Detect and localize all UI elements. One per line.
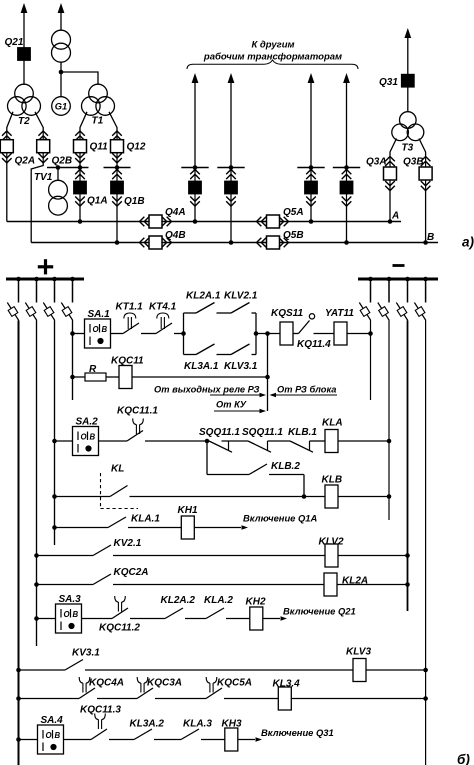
node KQC11 row on plus tap 4: [70, 375, 75, 380]
svg-text:Q31: Q31: [379, 77, 398, 88]
wire T2 left lead to Q2A: [7, 112, 13, 131]
svg-text:SQQ11.1: SQQ11.1: [242, 427, 283, 438]
feeder to other working transformer at x=195: [192, 73, 199, 83]
node YAT11 row on minus tap 1: [368, 331, 373, 336]
wire T1 left lead to Q11: [80, 112, 87, 131]
bus tap bar for Q12: [104, 167, 131, 169]
reserve line B: [31, 242, 438, 244]
minus bus tap #2 with fuse-switch: [387, 277, 392, 282]
wire R to KQC11: [106, 376, 119, 378]
wire KV3.1 to KLV3: [85, 669, 353, 671]
sectionalizing switch Q4A: [140, 217, 145, 227]
wire KT4.1 to parallel block: [174, 333, 184, 335]
node KLB.2 joins: [302, 494, 307, 499]
generator breaker Q1A: [79, 168, 81, 207]
svg-text:Q4B: Q4B: [165, 230, 186, 241]
svg-text:KLV3.1: KLV3.1: [224, 361, 258, 372]
wire Q12 down to bus tap: [116, 163, 118, 168]
wire SA.4 to KQC11.3: [64, 739, 92, 741]
wire T3 right lead: [419, 139, 426, 157]
feeder to other working transformer at x=346.5: [343, 73, 350, 83]
svg-text:Q12: Q12: [127, 142, 146, 153]
svg-text:б): б): [457, 752, 470, 765]
wire to KV3.1: [19, 669, 66, 671]
svg-text:KL3A.2: KL3A.2: [130, 719, 165, 730]
generator step-up transformer above G1: [60, 11, 62, 30]
wire KLV2 to minus tap 3: [338, 555, 408, 557]
plus bus tap #3 with fuse-switch: [52, 277, 57, 282]
node KL3.4 row on minus tap 4: [423, 696, 428, 701]
plus bus tap #2 with fuse-switch: [34, 277, 39, 282]
wire Q11 down to generator bus tap: [79, 163, 81, 168]
wire Q21 to T2: [23, 60, 25, 84]
svg-text:SQQ11.1: SQQ11.1: [199, 427, 240, 438]
generator breaker Q1B: [116, 168, 118, 207]
wire to SA.1: [73, 333, 85, 335]
svg-text:O: O: [64, 610, 70, 619]
svg-text:KV3.1: KV3.1: [72, 648, 100, 659]
wire KQC4A to KQC3A: [97, 698, 137, 700]
node KLV3 row on minus tap 4: [423, 668, 428, 673]
svg-text:Q2A: Q2A: [15, 156, 36, 167]
wire to KV2.1: [37, 555, 94, 557]
wire KL3A.2 to KLA.3: [154, 739, 181, 741]
wire KLB to minus tap 2: [338, 496, 389, 498]
wire KH1 to output arrow: [195, 527, 242, 529]
node B: [423, 240, 428, 245]
wire T1 right lead to Q12: [109, 112, 117, 131]
svg-text:Q2B: Q2B: [52, 156, 73, 167]
svg-text:KLA.3: KLA.3: [183, 719, 212, 730]
node on trip branch: [265, 375, 270, 380]
wire T2 right lead to Q2B: [35, 112, 43, 131]
svg-text:KLV2.1: KLV2.1: [224, 291, 258, 302]
withdrawable breaker Q12: [116, 131, 118, 163]
svg-text:KLA.2: KLA.2: [204, 595, 233, 606]
node G junction: [59, 70, 64, 75]
svg-text:SA.3: SA.3: [59, 594, 82, 605]
svg-text:KQ11.4: KQ11.4: [297, 339, 331, 350]
wire to KLA.1: [55, 527, 109, 529]
wire Q1B to line B: [116, 206, 118, 243]
parallel block right rail: [255, 313, 257, 355]
sectionalizing switch Q5A: [257, 217, 262, 227]
plus supply bus: [38, 265, 53, 268]
svg-text:B: B: [102, 325, 108, 334]
minus supply bus: [393, 264, 405, 267]
svg-text:Q3B: Q3B: [403, 157, 424, 168]
wire KL to KLB coil: [130, 496, 326, 498]
svg-text:KQC5A: KQC5A: [217, 678, 252, 689]
wire KLB.2 to KLB row: [269, 474, 304, 476]
wire KL2A to minus tap 3: [337, 584, 408, 586]
wire SA.2 to KQC11.1: [99, 440, 128, 442]
svg-text:Q5B: Q5B: [283, 230, 304, 241]
wire SA.1 to KT1.1: [111, 333, 124, 335]
svg-text:T3: T3: [402, 143, 414, 154]
node A: [388, 219, 393, 224]
wire Q2A down to line A: [6, 163, 8, 222]
svg-text:KH1: KH1: [178, 505, 198, 516]
node TV1 tap: [56, 165, 61, 170]
wire Q21 feeder to grid with arrow: [21, 3, 28, 13]
svg-text:KLV3: KLV3: [346, 647, 371, 658]
wire to SA.4: [19, 739, 38, 741]
node KLB.2 branch: [205, 439, 210, 444]
svg-text:Q1B: Q1B: [124, 196, 145, 207]
wire transformer to node G: [60, 62, 62, 96]
wire KH3 to output arrow: [238, 739, 255, 741]
svg-text:SA.4: SA.4: [41, 715, 64, 726]
node Q1A column: [78, 165, 83, 170]
svg-text:B: B: [55, 731, 61, 740]
node KLB row on minus tap 2: [387, 494, 392, 499]
svg-text:B: B: [427, 232, 434, 243]
wire to SA.2: [55, 440, 73, 442]
svg-text:KL: KL: [111, 464, 124, 475]
node KL row on plus tap 3: [52, 494, 57, 499]
minus bus tap #1 with fuse-switch: [368, 277, 373, 282]
wire Q31 to T3: [407, 87, 409, 112]
wire Q3B to line B: [425, 191, 427, 243]
svg-text:Включение Q31: Включение Q31: [261, 727, 334, 738]
svg-text:KT4.1: KT4.1: [149, 302, 177, 313]
withdrawable breaker Q2B: [42, 131, 44, 163]
node KQC row on plus tap 1: [16, 696, 21, 701]
generator G1: [52, 97, 71, 116]
svg-text:KQC4A: KQC4A: [89, 678, 124, 689]
svg-text:Q11: Q11: [90, 142, 109, 153]
wire KT1.1 to KT4.1: [141, 333, 156, 335]
svg-text:KQC11.1: KQC11.1: [117, 406, 158, 417]
svg-text:KQS11: KQS11: [271, 308, 303, 319]
wire Q2B jog down to line B: [31, 163, 43, 243]
wire KQS11 to KQ11.4: [293, 333, 299, 335]
svg-text:От КУ: От КУ: [216, 400, 247, 410]
svg-text:Включение Q1A: Включение Q1A: [243, 513, 317, 524]
wire KH2 to output arrow: [263, 618, 280, 620]
wire KQC11.3 to KL3A.2: [109, 739, 134, 741]
transformer T1: [89, 84, 108, 103]
sectionalizing switch Q4B: [140, 238, 145, 248]
node KLA row on minus tap 2: [387, 439, 392, 444]
svg-text:O: O: [81, 433, 87, 442]
feeder to other working transformer at x=311: [308, 73, 315, 83]
wire to KQC2A: [37, 584, 94, 586]
svg-text:KLB: KLB: [322, 475, 343, 486]
wire KQC2A to KL2A: [113, 584, 324, 586]
wire KQC3A to KQC5A: [155, 698, 206, 700]
svg-text:T2: T2: [18, 116, 30, 127]
wire T3 left lead: [390, 139, 397, 157]
svg-text:KQC2A: KQC2A: [114, 567, 149, 578]
svg-text:От РЗ блока: От РЗ блока: [277, 385, 336, 395]
node Q1A on line A: [78, 219, 83, 224]
svg-text:К другим: К другим: [251, 40, 294, 51]
node KL2A row on minus tap 3: [405, 582, 410, 587]
wire KLV3 to minus tap 4: [366, 669, 426, 671]
wire KQC11.1 to branch node: [145, 440, 207, 442]
wire KLB.2 branch horizontal: [207, 474, 249, 476]
svg-text:G1: G1: [55, 101, 67, 111]
svg-text:O: O: [93, 325, 99, 334]
svg-text:KQC11.3: KQC11.3: [80, 705, 121, 716]
node trip signal branch: [265, 331, 270, 336]
parallel block left rail: [183, 313, 185, 355]
svg-text:KLB.1: KLB.1: [288, 427, 317, 438]
svg-text:KLA: KLA: [322, 418, 343, 429]
wire KLA.3 to KH3: [201, 739, 225, 741]
svg-text:Q21: Q21: [5, 37, 24, 48]
node SA.2 row on plus tap 3: [52, 439, 57, 444]
wire KLA.1 to KH1: [128, 527, 181, 529]
svg-text:Q5A: Q5A: [283, 207, 304, 218]
plus bus tap #1 with fuse-switch: [16, 277, 21, 282]
brace over feeder arrows: [187, 60, 358, 69]
svg-text:KL3A.1: KL3A.1: [184, 361, 219, 372]
svg-text:От выходных реле РЗ: От выходных реле РЗ: [154, 385, 260, 395]
generator bus tap bar for Q11 / TV1: [47, 167, 89, 169]
transformer T2: [15, 84, 34, 103]
wire Q3A to line A: [389, 191, 391, 222]
withdrawable breaker Q2A: [6, 131, 8, 163]
svg-text:T1: T1: [92, 116, 104, 127]
svg-text:KH2: KH2: [246, 597, 266, 608]
svg-text:O: O: [46, 731, 52, 740]
svg-text:Включение Q21: Включение Q21: [283, 606, 356, 617]
svg-text:KL2A.2: KL2A.2: [161, 595, 196, 606]
wire trip branch vertical: [267, 334, 269, 412]
svg-text:Q1A: Q1A: [87, 196, 108, 207]
plus bus tap #4 with fuse-switch: [70, 277, 75, 282]
wire YAT11 to minus tap 1: [347, 333, 371, 335]
svg-text:TV1: TV1: [34, 172, 53, 183]
wire KLA.2 to KH2: [226, 618, 250, 620]
withdrawable breaker Q11: [79, 131, 81, 163]
wire to KQC4A: [19, 698, 80, 700]
reserve line A: [7, 221, 401, 223]
wire KLB.2 branch down: [206, 441, 208, 475]
svg-text:Q4A: Q4A: [165, 207, 186, 218]
svg-text:KV2.1: KV2.1: [114, 538, 142, 549]
svg-text:KLB.2: KLB.2: [271, 461, 300, 472]
wire KQC11 to trip node: [132, 376, 268, 378]
wire to KL contact: [55, 496, 111, 498]
wire KQC5A to KL3.4: [224, 698, 278, 700]
wire KL3.4 to minus tap 4: [292, 698, 426, 700]
node KLV2 row on minus tap 3: [405, 553, 410, 558]
node KLA.1 row on plus tap 3: [52, 525, 57, 530]
svg-text:KL2A.1: KL2A.1: [186, 291, 221, 302]
svg-text:KT1.1: KT1.1: [116, 302, 144, 313]
svg-text:а): а): [462, 235, 474, 250]
svg-text:A: A: [391, 211, 399, 222]
svg-text:Q3A: Q3A: [366, 157, 387, 168]
sectionalizing switch Q5B: [257, 238, 262, 248]
feeder to other working transformer at x=231: [228, 73, 235, 83]
wire to SA.3: [37, 618, 56, 620]
node KQC2A row on plus tap 2: [34, 582, 39, 587]
svg-text:B: B: [73, 610, 79, 619]
svg-text:B: B: [90, 433, 96, 442]
node SA.1 row on plus tap 4: [70, 331, 75, 336]
minus bus tap #3 with fuse-switch: [405, 277, 410, 282]
wire KQC11.2 to KL2A.2: [130, 618, 165, 620]
node KV2.1 row on plus tap 2: [34, 553, 39, 558]
wire KL2A.2 to KLA.2: [185, 618, 206, 620]
wire node G to T1: [61, 72, 98, 84]
node SA.4 row on plus tap 1: [16, 737, 21, 742]
wire Q1A to line A: [79, 206, 81, 222]
wire KV2.1 to KLV2: [113, 555, 325, 557]
svg-text:KQC11.2: KQC11.2: [99, 623, 140, 634]
reserve transformer feeder arrow: [404, 28, 411, 38]
wire block to KQS11: [256, 333, 280, 335]
node Q1B on line B: [115, 240, 120, 245]
svg-text:KLA.1: KLA.1: [131, 514, 160, 525]
svg-text:KQC3A: KQC3A: [147, 678, 182, 689]
minus bus tap #4 with fuse-switch: [423, 277, 428, 282]
svg-text:YAT11: YAT11: [325, 308, 354, 319]
node KV3.1 row on plus tap 1: [16, 668, 21, 673]
wire SA.3 to KQC11.2: [82, 618, 113, 620]
reserve transformer T3: [400, 112, 417, 129]
node SA.3 row on plus tap 2: [34, 616, 39, 621]
wire KLA to minus tap 2: [338, 440, 389, 442]
wire to resistor R: [73, 376, 86, 378]
